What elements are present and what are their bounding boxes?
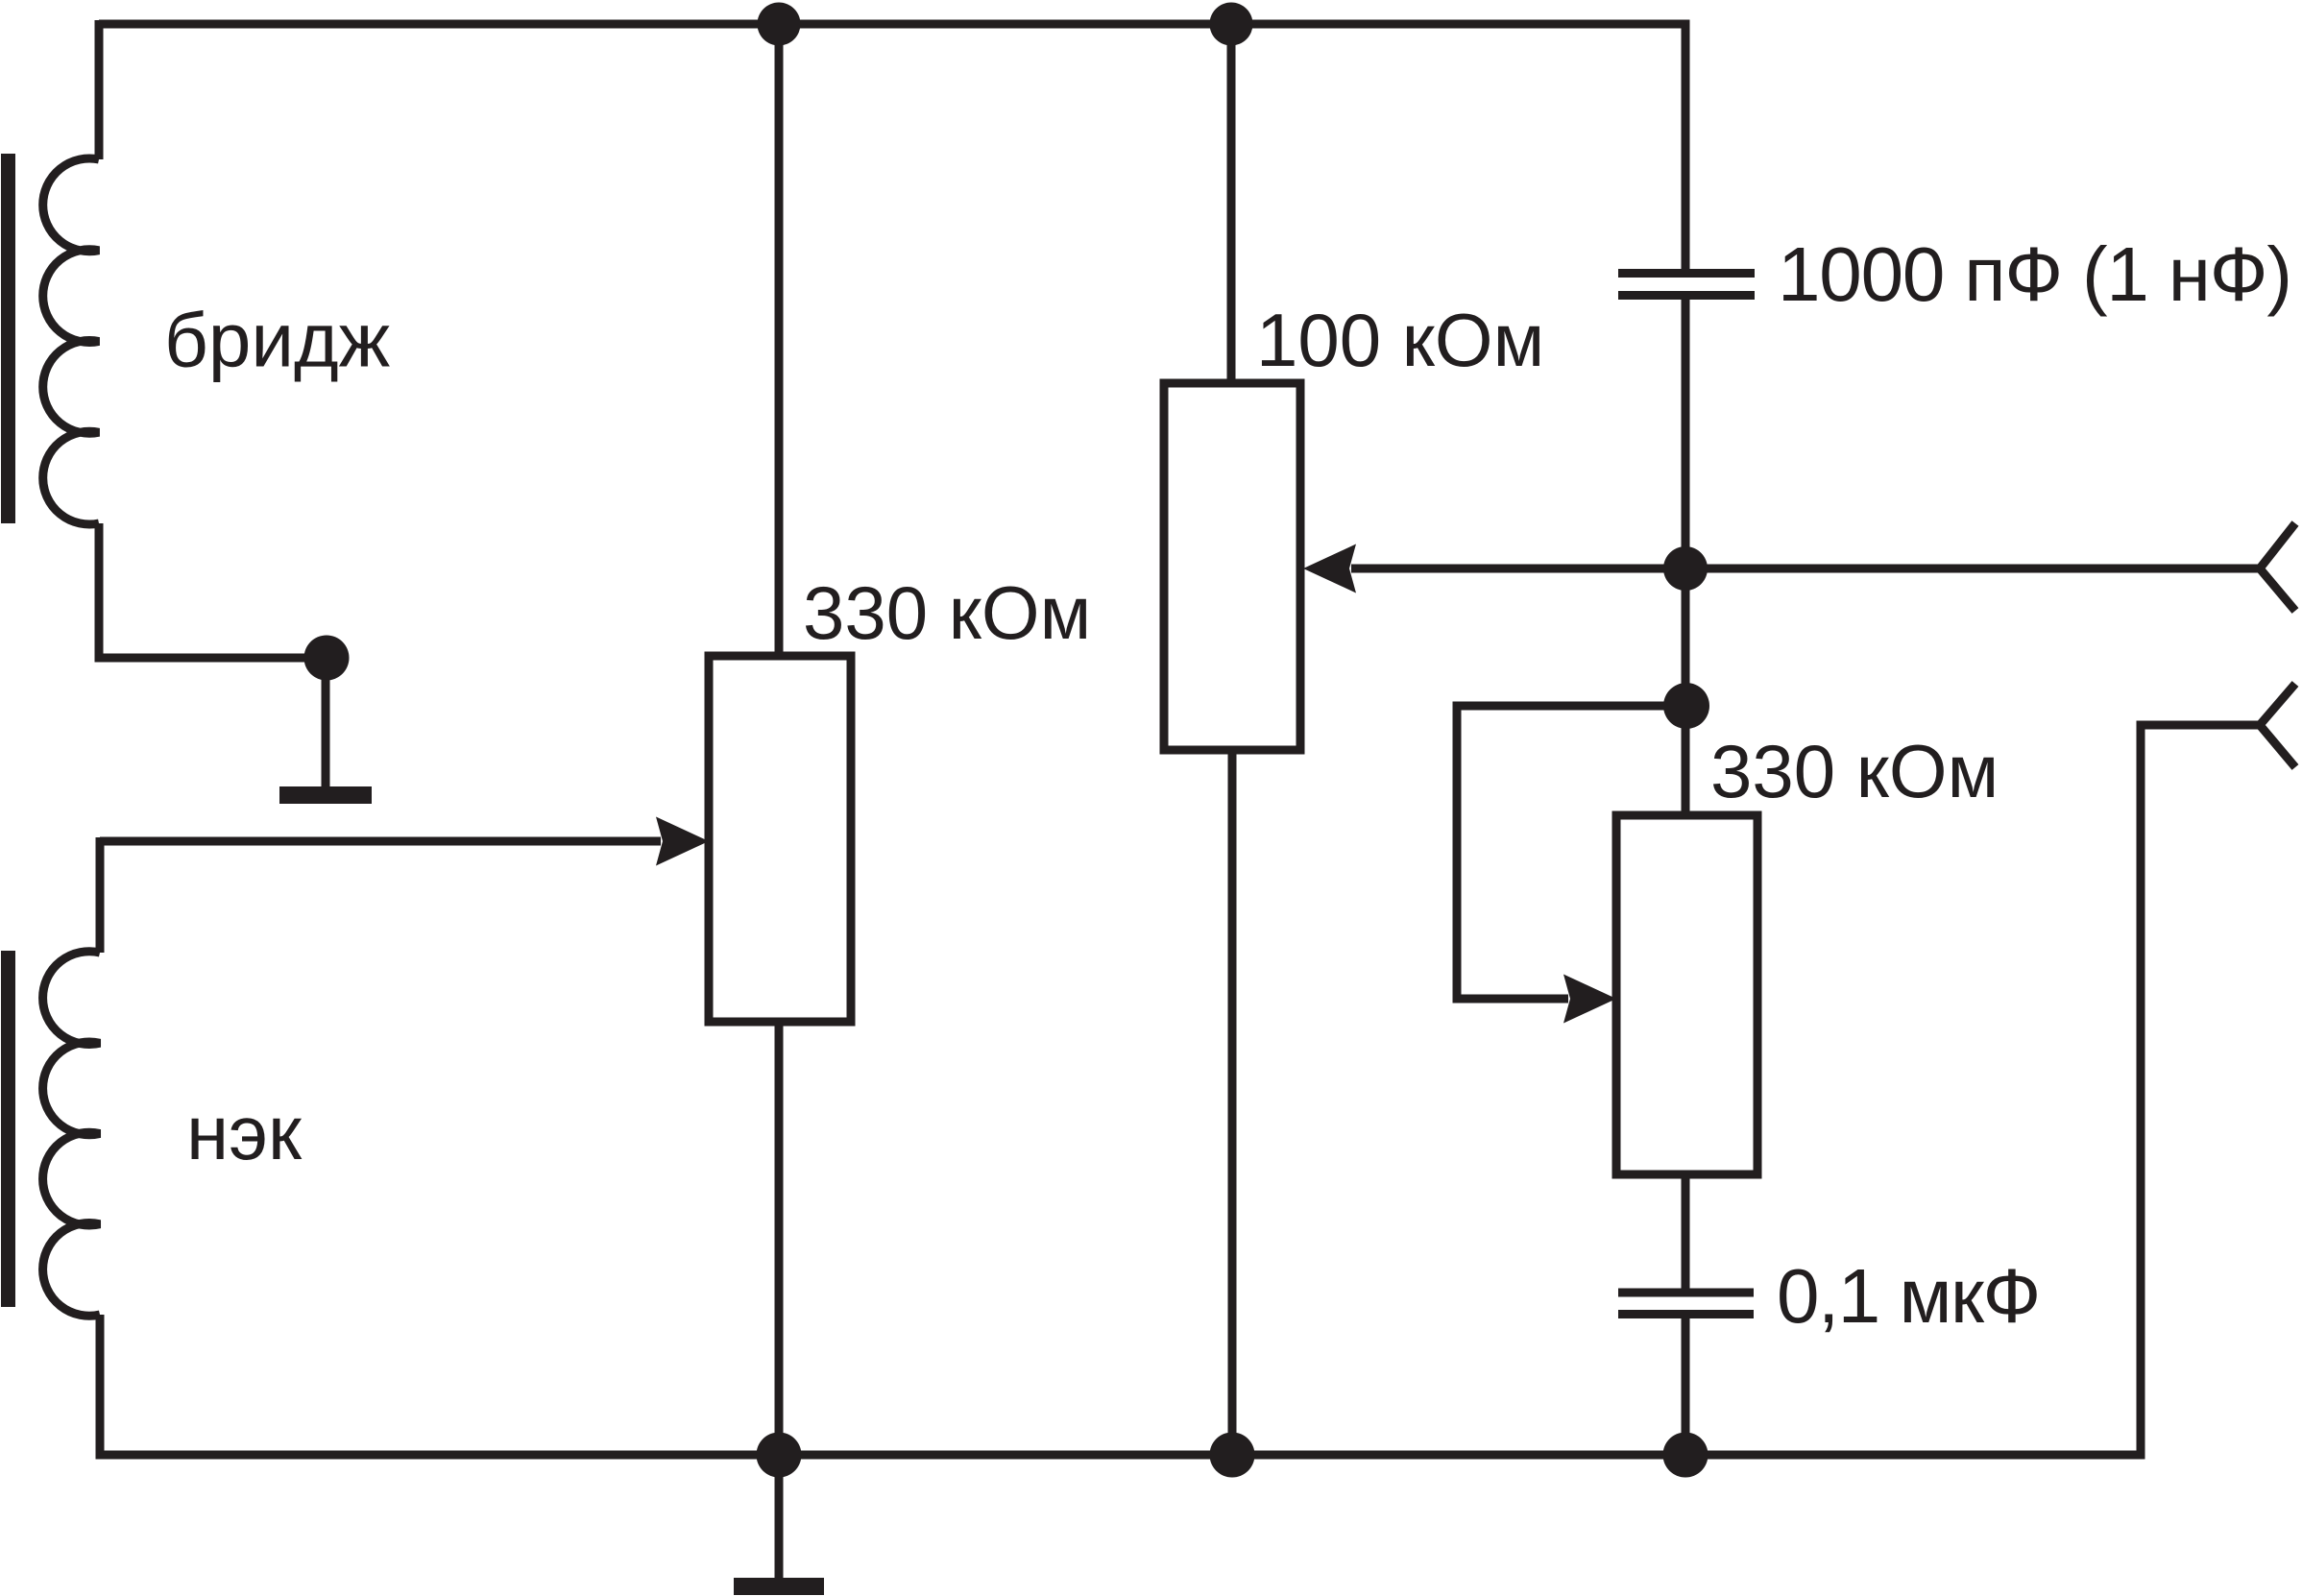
wire jack2 ground drop [2137,721,2145,1460]
wire neck hot horizontal [100,837,661,846]
wire top bus [99,20,1685,29]
wire pot3 bottom lead [1682,1174,1690,1289]
capacitor C1 plate A [1618,269,1755,278]
jack J1 tip [2260,523,2295,611]
wire R3 wiper loop left [1453,702,1462,1000]
svg-text:330 кОм: 330 кОм [803,570,1091,655]
ground bar 2 [734,1578,824,1595]
inductor L2 coil (neck pickup) [43,952,100,1317]
svg-text:0,1 мкФ: 0,1 мкФ [1777,1253,2040,1339]
capacitor C2 plate B [1618,1310,1754,1318]
wire pot3 top lead [1682,706,1690,815]
inductor L1 coil (bridge pickup) [43,158,99,524]
svg-text:100 кОм: 100 кОм [1256,298,1544,382]
L2 core bar [1,951,15,1307]
capacitor C1 plate B [1618,291,1755,300]
wire bridge hot vertical [95,20,104,159]
node bottom bus / pot2 [1210,1433,1255,1478]
node bridge-cold junction [304,636,350,681]
wire cap1 branch top [1682,20,1690,270]
wire neck hot vertical [96,837,105,953]
capacitor C2 plate A [1618,1289,1754,1297]
wire jack2 stub [2141,721,2260,730]
node bottom bus / cap2 [1663,1433,1708,1478]
potentiometer R1 330k body [709,656,851,1022]
wire ground stub 2 [775,1455,784,1580]
arrowhead wiper R1 (points right) [656,817,709,866]
wire pot2 bottom lead [1228,750,1237,1455]
L1 core bar [1,154,15,523]
wire neck cold [96,1315,105,1455]
wire output signal [1685,565,2259,573]
node top bus / pot1 [758,3,801,46]
wire R3 wiper loop bottom [1453,995,1569,1004]
potentiometer R3 330k body [1616,815,1757,1174]
wire pot1 bottom lead [775,1022,784,1455]
wire node3 to node4 [1682,568,1690,706]
svg-text:1000 пФ (1 нФ): 1000 пФ (1 нФ) [1778,231,2291,317]
wire R3 wiper loop top [1457,702,1686,711]
svg-text:330 кОм: 330 кОм [1710,729,1999,813]
node top bus / pot2 [1210,3,1253,46]
wire wiper feed R2 [1351,565,1685,573]
arrowhead wiper R2 (points left) [1303,544,1356,593]
ground bar 1 [279,786,372,804]
wire bottom bus [100,1455,2140,1460]
wire bridge cold [99,523,327,658]
arrowhead wiper R3 (points right) [1563,975,1616,1024]
potentiometer R2 100k body [1164,383,1300,750]
wire pot1 top lead [775,24,784,656]
node wiper R3 junction [1663,683,1709,729]
wire ground stub 1 [322,658,330,789]
svg-text:бридж: бридж [164,298,391,383]
node output junction [1663,546,1708,591]
wire cap2 to bottom bus [1682,1318,1690,1455]
wire pot2 top lead [1227,24,1236,383]
node bottom bus / pot1 [757,1433,802,1478]
svg-text:нэк: нэк [186,1090,303,1175]
jack J2 sleeve [2260,684,2295,767]
wire cap1 to node3 [1682,300,1690,568]
